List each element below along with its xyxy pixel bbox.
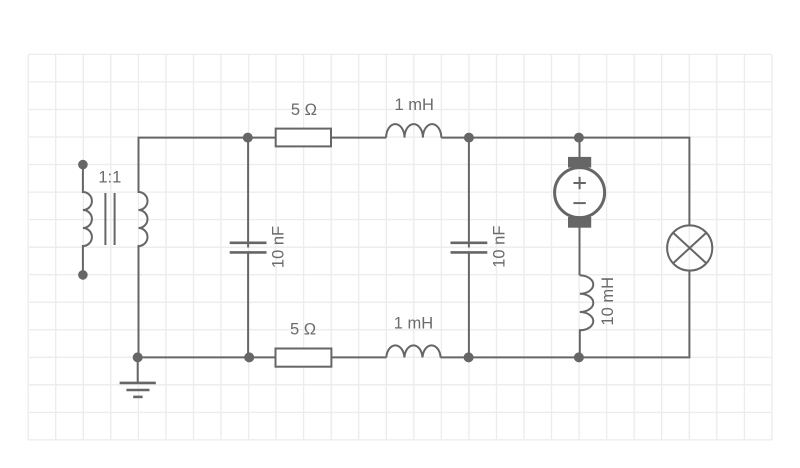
wire bottom rail left segment	[138, 356, 387, 358]
motor M1 plus sign	[573, 177, 585, 189]
junction dot bottom node 3	[574, 352, 584, 362]
svg-text:10 nF: 10 nF	[270, 226, 288, 268]
junction dot top node 2	[464, 133, 474, 143]
junction dot bottom node 1	[244, 352, 254, 362]
inductor L3 body (10 mH)	[580, 275, 594, 357]
junction dot top node 1	[243, 133, 253, 143]
svg-text:1 mH: 1 mH	[394, 96, 433, 114]
svg-text:10 mH: 10 mH	[599, 277, 617, 326]
svg-text:1 mH: 1 mH	[394, 315, 433, 333]
svg-text:1:1: 1:1	[98, 169, 121, 187]
capacitor C1 top lead	[247, 138, 249, 248]
junction dot bottom node 0	[133, 352, 143, 362]
svg-text:5 Ω: 5 Ω	[290, 321, 316, 339]
motor M1 bottom brush	[568, 217, 591, 228]
resistor R2 body	[276, 349, 332, 367]
capacitor C2 top lead	[468, 138, 470, 248]
resistor R1 body	[276, 129, 331, 147]
wire top rail right segment	[441, 138, 689, 226]
capacitor C1 bottom lead	[247, 252, 249, 357]
capacitor C2 bottom lead	[468, 252, 470, 357]
capacitor C1 plates	[230, 243, 267, 253]
junction dot bottom node 2	[464, 352, 474, 362]
ground bars	[120, 383, 156, 397]
inductor L1 body	[386, 124, 441, 137]
svg-text:5 Ω: 5 Ω	[291, 101, 317, 119]
terminal dot primary top	[78, 160, 88, 170]
inductor L2 body	[386, 345, 440, 357]
motor M1 top brush	[568, 157, 591, 168]
transformer T1 core	[105, 193, 114, 245]
motor M1 minus sign	[573, 202, 585, 204]
terminal dot primary bottom	[78, 270, 88, 280]
transformer T1 primary winding	[83, 165, 92, 275]
motor M1 circle	[555, 168, 605, 218]
motor M1 top lead	[579, 138, 581, 158]
wire top rail left segment	[138, 137, 387, 139]
motor M1 bottom lead	[579, 227, 581, 275]
ground lead	[137, 357, 139, 383]
lamp body	[667, 225, 712, 270]
svg-text:10 nF: 10 nF	[490, 226, 508, 268]
wire bottom rail right segment	[440, 271, 689, 358]
transformer T1 secondary winding	[139, 138, 148, 358]
capacitor C2 plates	[451, 243, 488, 253]
junction dot top node 3	[574, 133, 584, 143]
